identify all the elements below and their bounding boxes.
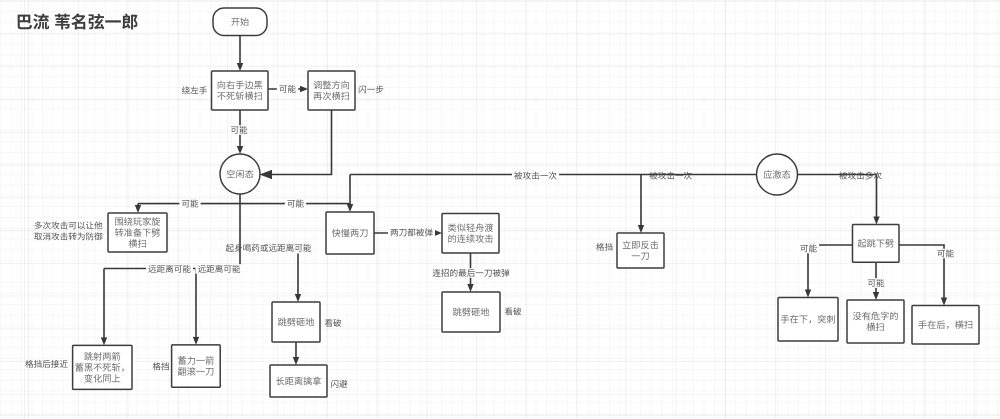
- wire: react to jump-chop box: [798, 175, 880, 225]
- wire: idle circle down trunk: [239, 194, 241, 269]
- node box: long-grab: [270, 365, 327, 397]
- label: keneng A-B: [277, 84, 298, 94]
- node box: A: [212, 71, 269, 110]
- node circle: 空闲态: [220, 154, 260, 194]
- label: block 1: [153, 362, 169, 370]
- label: far-possible 1: [146, 264, 193, 274]
- wire: jump-chop middle branch: [873, 262, 879, 300]
- node box: hand-below: [778, 298, 838, 342]
- wire: keneng horizontal: [138, 203, 350, 205]
- label: kanpo center: [325, 319, 342, 327]
- label: kanpo right: [505, 307, 522, 315]
- wire: drop to counter box: [638, 175, 644, 234]
- node box: fast-slow: [326, 212, 374, 254]
- node start (stadium): 开始: [213, 8, 267, 36]
- label: shanbi: [331, 380, 347, 388]
- wire: far-distance horizontal: [104, 268, 240, 270]
- node box: no-kanji: [847, 300, 904, 343]
- label: hit-many: [839, 172, 881, 180]
- wire: drop to wrap-player box: [135, 204, 141, 213]
- node box: jump-slam-center: [272, 302, 320, 342]
- label: keneng jc-mid: [865, 278, 886, 288]
- node box: hand-behind: [912, 306, 979, 345]
- wire: hit-once horizontal: [350, 174, 757, 176]
- node box: jump-shoot: [73, 345, 132, 389]
- label: multi-attack note line2: [34, 232, 102, 240]
- wire: drop to jump-shoot box: [101, 269, 107, 346]
- label: shan-yi-bu: [359, 85, 384, 93]
- label: both-deflected: [388, 228, 435, 238]
- node box: counter: [617, 233, 664, 268]
- label: far-possible 2: [196, 264, 243, 274]
- node box: charge-arrow: [172, 345, 221, 387]
- label: multi-attack note line1: [35, 221, 103, 229]
- node box: jump-chop: [853, 225, 900, 263]
- wire: jump-slam to long-grab: [293, 342, 299, 365]
- title text: [18, 14, 138, 30]
- label: block-approach: [25, 360, 67, 368]
- node box: combo: [442, 214, 499, 254]
- wire: drop to jump-slam center box: [295, 254, 301, 303]
- label: hit-once 1: [512, 171, 559, 181]
- wire: start to A: [237, 36, 243, 72]
- wire: A to B: [269, 86, 309, 92]
- label: block 2: [596, 243, 612, 251]
- wire: drop to charge-arrow box: [193, 269, 199, 345]
- node circle: 应激态: [757, 154, 798, 195]
- wire: drop to fast-slow box: [347, 175, 353, 213]
- node box: wrap-player: [108, 213, 167, 252]
- label: keneng right: [285, 199, 306, 209]
- label: keneng left: [179, 199, 200, 209]
- label: keneng jc-right: [935, 249, 956, 259]
- wire: jump-chop right branch: [899, 245, 947, 306]
- label: keneng jc-left: [798, 244, 819, 254]
- wire: jump-chop left branch: [805, 245, 853, 298]
- label: keneng A-idle: [228, 125, 249, 135]
- wire: combo box to jump-slam right: [467, 253, 473, 292]
- label: getup-or-far: [226, 244, 311, 252]
- node box: jump-slam-right: [442, 292, 500, 332]
- label: rao-zuo-shou: [182, 86, 207, 94]
- wire: fast-slow to combo box: [374, 230, 442, 236]
- wire: A to idle circle: [237, 110, 243, 154]
- wire: B to idle circle: [260, 110, 332, 179]
- node box: B: [308, 71, 355, 110]
- label: hit-once 2: [649, 172, 691, 180]
- label: last-hit-deflected: [430, 268, 511, 278]
